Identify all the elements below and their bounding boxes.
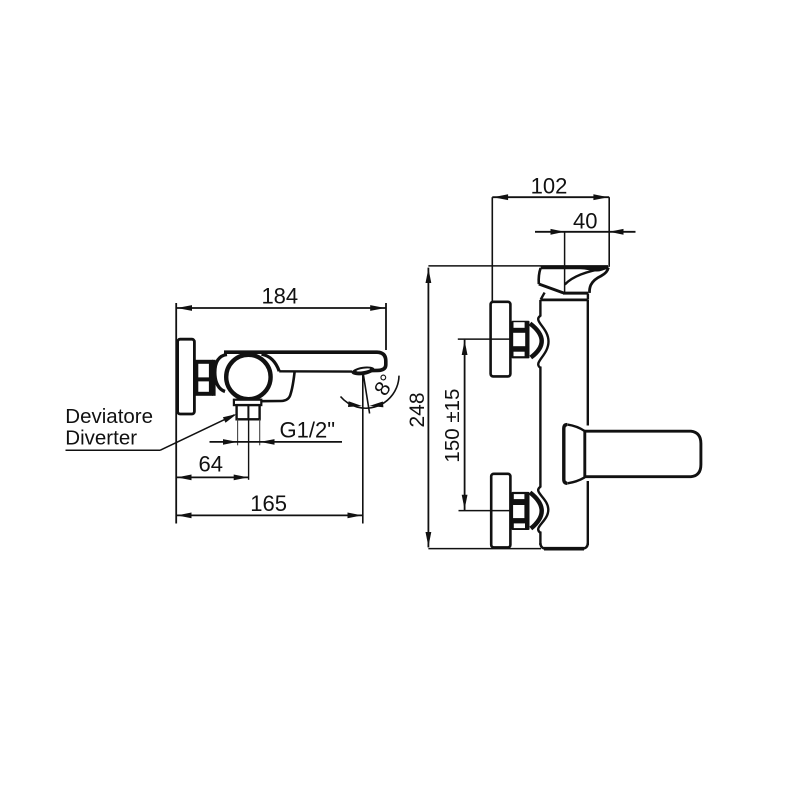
svg-text:248: 248 bbox=[406, 392, 429, 427]
svg-text:102: 102 bbox=[531, 173, 568, 198]
svg-text:184: 184 bbox=[261, 283, 298, 308]
svg-text:150 ±15: 150 ±15 bbox=[441, 389, 464, 463]
svg-text:G1/2": G1/2" bbox=[280, 418, 336, 443]
svg-text:8°: 8° bbox=[370, 371, 400, 400]
svg-text:Deviatore: Deviatore bbox=[65, 405, 153, 428]
svg-text:64: 64 bbox=[198, 452, 222, 477]
svg-text:165: 165 bbox=[250, 491, 287, 516]
svg-text:Diverter: Diverter bbox=[65, 427, 137, 450]
svg-text:40: 40 bbox=[573, 209, 597, 234]
